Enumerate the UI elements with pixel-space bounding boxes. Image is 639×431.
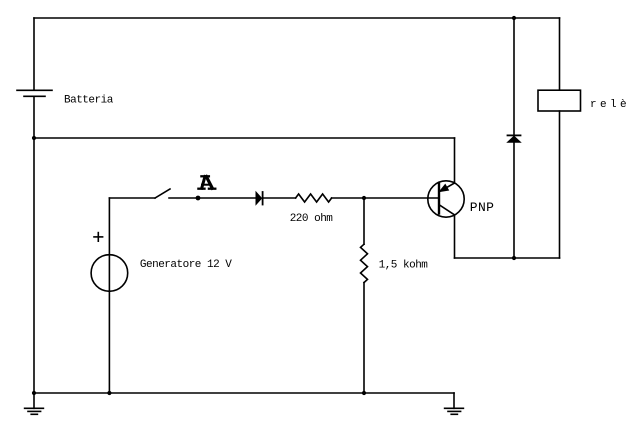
wire emitter rail horizontal bbox=[34, 137, 455, 139]
wire left rail lower bbox=[33, 96, 35, 393]
wire bottom right rail bbox=[455, 257, 560, 259]
wire flyback diode branch bbox=[513, 18, 515, 258]
svg-text:relè: relè bbox=[590, 99, 630, 111]
wire divider drop upper bbox=[363, 198, 365, 244]
battery Batteria bbox=[17, 90, 52, 96]
svg-text:PNP: PNP bbox=[470, 200, 494, 215]
ground GND2 bbox=[445, 393, 464, 414]
wire left rail upper bbox=[33, 18, 35, 90]
wire relay branch upper bbox=[559, 18, 561, 90]
node junction base divider bbox=[362, 196, 366, 200]
generator V1 12V source bbox=[91, 198, 128, 393]
node junction divider bottom bbox=[362, 391, 366, 395]
ground GND1 bbox=[25, 393, 44, 414]
label node A bbox=[198, 176, 215, 188]
label PNP bbox=[470, 200, 494, 215]
node junction bottom left bbox=[32, 391, 36, 395]
node junction generator bottom bbox=[107, 391, 111, 395]
wire top rail bbox=[34, 17, 560, 19]
wire resistor to base bbox=[332, 197, 439, 199]
node junction battery-emitter rail bbox=[32, 136, 36, 140]
relay K1 bbox=[538, 90, 581, 111]
node junction diode-top rail bbox=[512, 16, 516, 20]
label rele bbox=[590, 99, 630, 111]
wire emitter drop bbox=[454, 138, 456, 183]
diode D1 flyback bbox=[508, 135, 521, 142]
resistor R2 1,5 kohm bbox=[361, 244, 368, 282]
svg-text:Generatore 12 V: Generatore 12 V bbox=[140, 259, 232, 271]
wire collector drop bbox=[454, 215, 456, 258]
transistor Q1 PNP bbox=[428, 181, 464, 217]
svg-text:1,5 kohm: 1,5 kohm bbox=[379, 259, 429, 271]
svg-text:220 ohm: 220 ohm bbox=[290, 213, 334, 225]
wire node A to diode bbox=[198, 197, 256, 199]
wire divider drop lower bbox=[363, 283, 365, 393]
label 220 ohm bbox=[290, 213, 334, 225]
label plus polarity bbox=[94, 233, 103, 242]
switch S1 bbox=[109, 189, 198, 198]
node junction diode-collector bbox=[512, 256, 516, 260]
resistor R1 220 ohm bbox=[296, 194, 332, 202]
wire relay branch lower bbox=[559, 111, 561, 258]
diode D2 series bbox=[256, 192, 263, 205]
label Batteria bbox=[64, 95, 114, 107]
label 1,5 kohm bbox=[379, 259, 429, 271]
label Generatore 12 V bbox=[140, 259, 232, 271]
wire diode to resistor bbox=[263, 197, 296, 199]
svg-text:Batteria: Batteria bbox=[64, 95, 114, 107]
wire bottom rail bbox=[34, 392, 454, 394]
node A junction bbox=[196, 196, 201, 201]
